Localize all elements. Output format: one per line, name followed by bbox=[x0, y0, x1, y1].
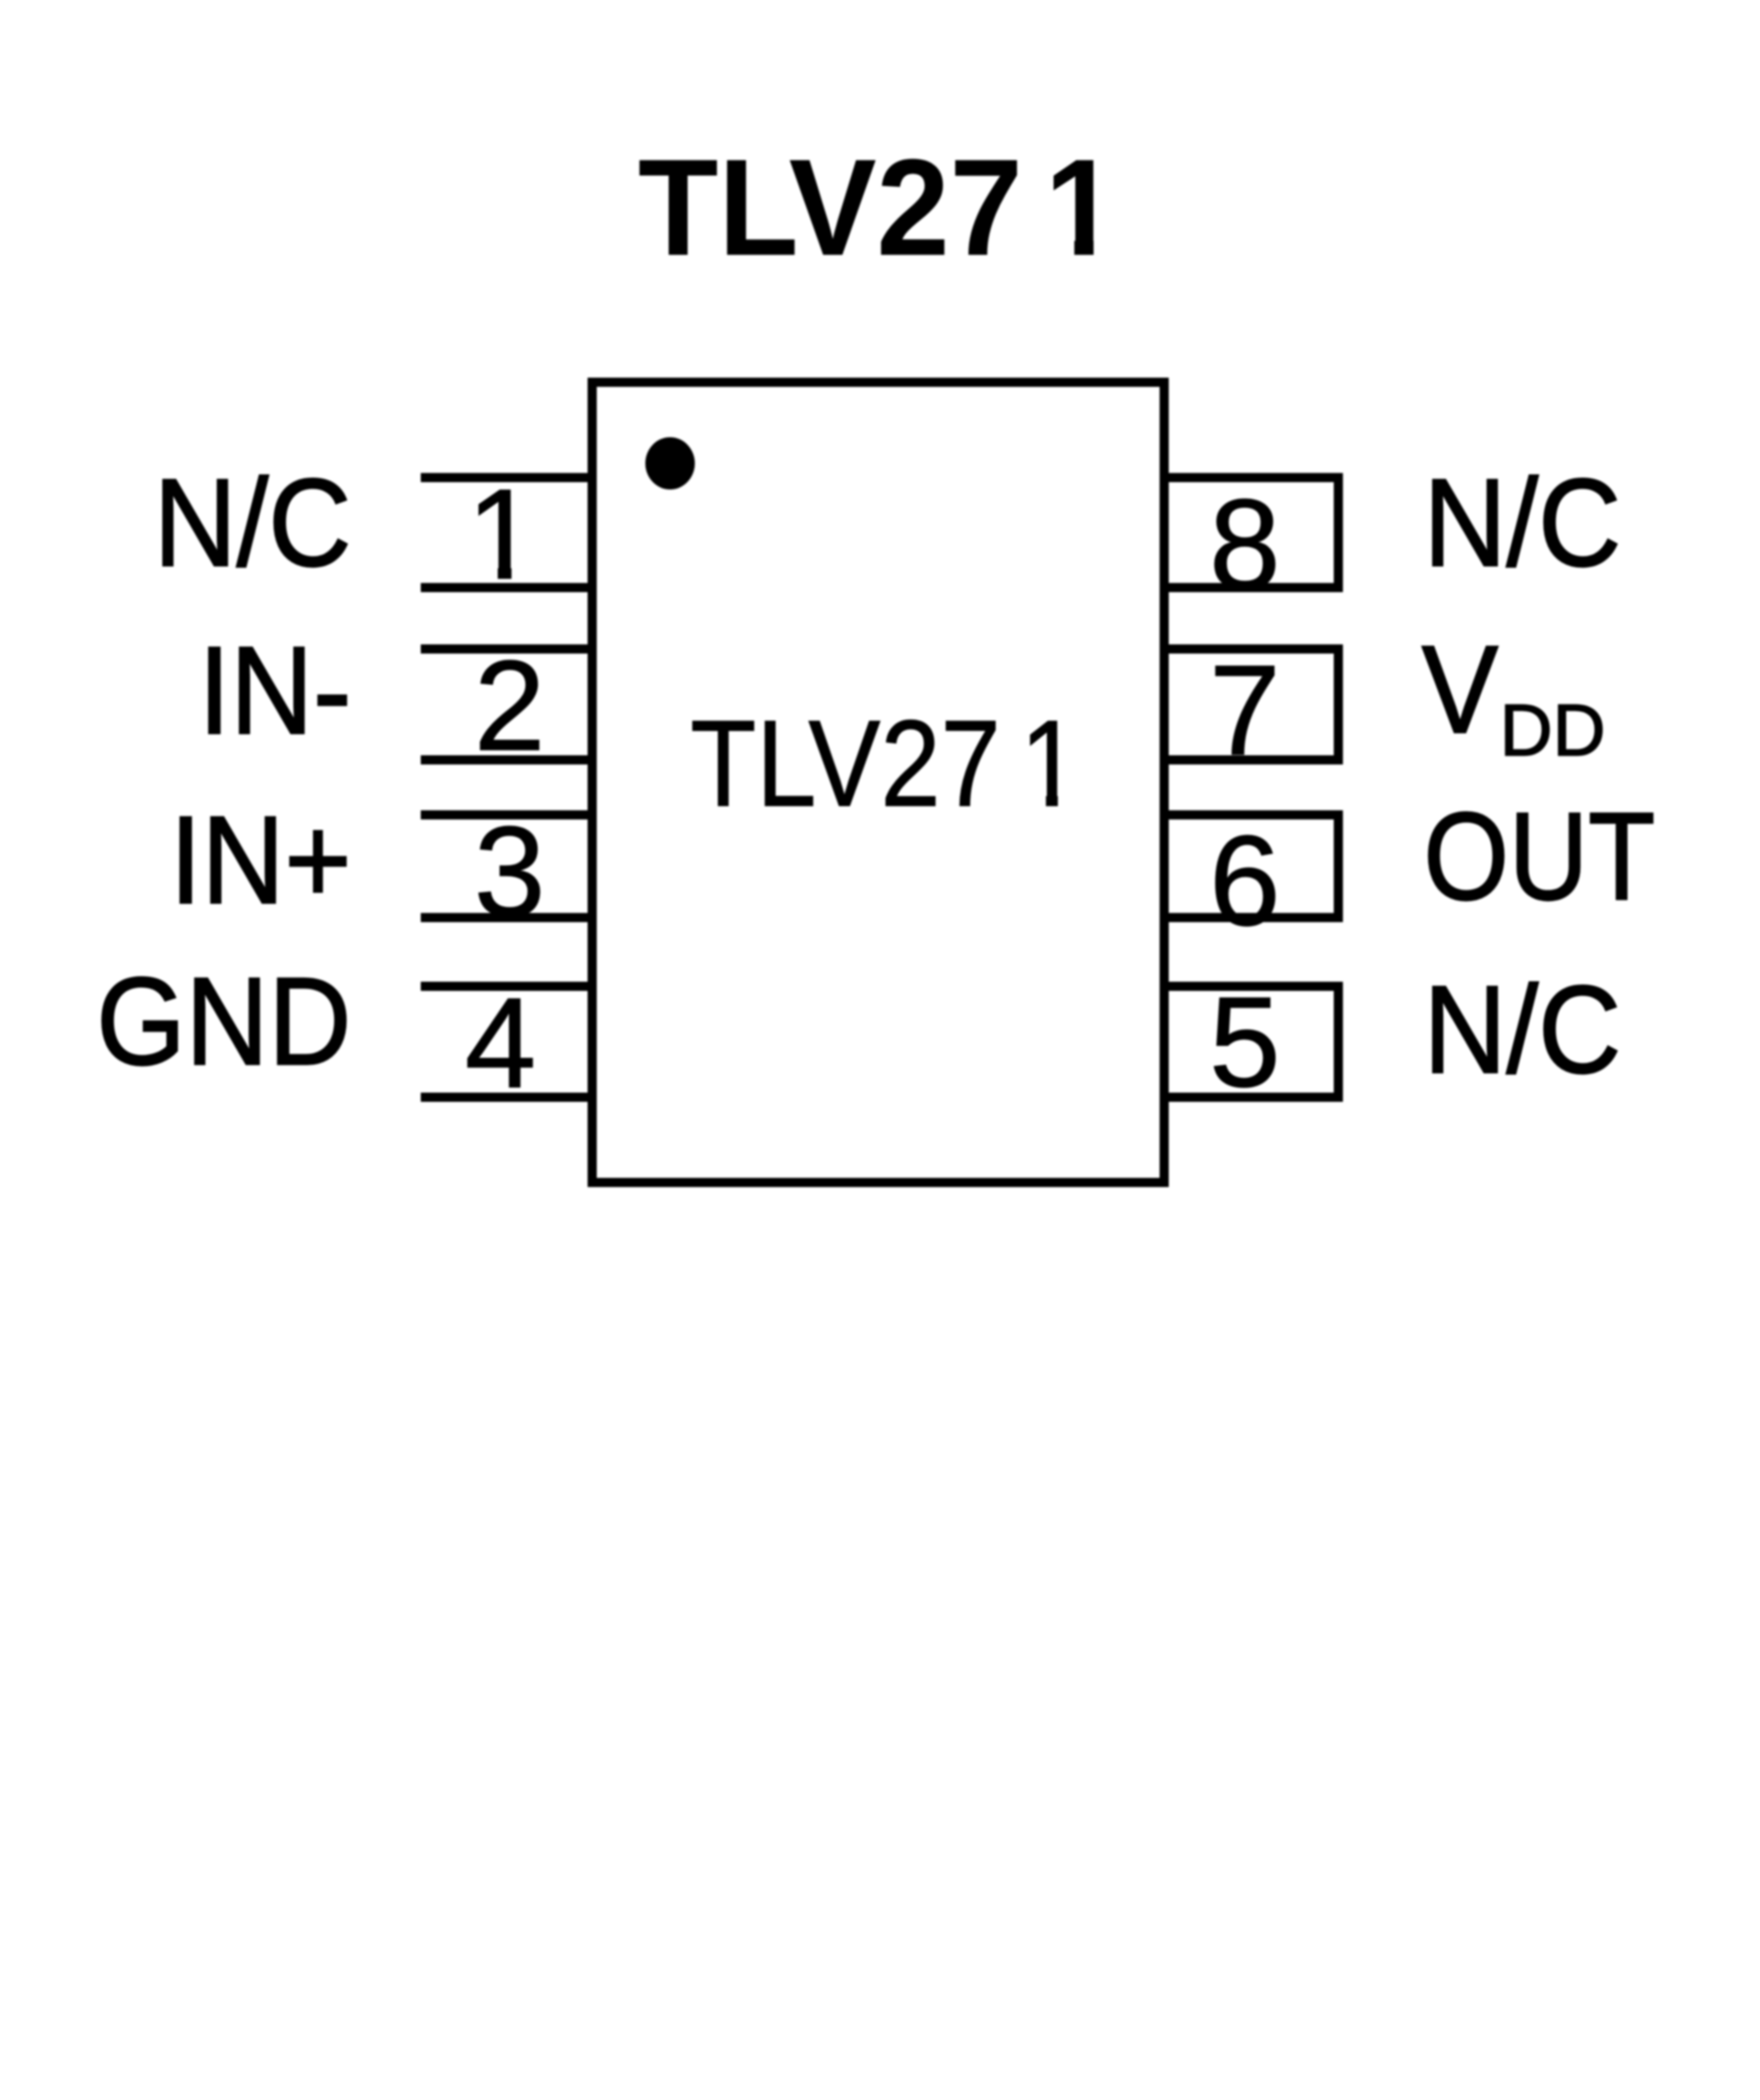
title TLV271 bbox=[638, 138, 1095, 276]
pin 2 lead bbox=[421, 644, 597, 764]
pin 8 name N/C bbox=[1424, 460, 1621, 585]
pin-1 indicator dot bbox=[645, 437, 695, 489]
pin 5 name N/C bbox=[1424, 967, 1621, 1092]
pin 1 number bbox=[411, 470, 594, 599]
pin 1 name N/C bbox=[154, 460, 351, 585]
pin 4 name GND bbox=[96, 959, 351, 1083]
pin 1 lead bbox=[421, 473, 597, 592]
pin 3 number bbox=[418, 808, 601, 936]
pin 5 lead bbox=[1160, 982, 1343, 1102]
pin 5 number bbox=[1153, 978, 1336, 1106]
pin 8 lead bbox=[1160, 473, 1343, 592]
pin 7 number bbox=[1153, 646, 1336, 775]
op-amp U1 package body bbox=[588, 378, 1169, 1187]
pin 2 number bbox=[418, 642, 601, 770]
pin 3 lead bbox=[421, 810, 597, 922]
pin 6 number bbox=[1153, 817, 1336, 945]
pin 7 lead bbox=[1160, 644, 1343, 764]
pin 4 lead bbox=[421, 982, 597, 1102]
pin 6 lead bbox=[1160, 810, 1343, 922]
pin 7 name VDD bbox=[1422, 627, 1498, 752]
pin 8 number bbox=[1153, 480, 1336, 609]
pin 2 name IN- bbox=[198, 628, 351, 753]
pin 6 name OUT bbox=[1424, 794, 1655, 918]
pin 3 name IN+ bbox=[170, 797, 351, 922]
pin 4 number bbox=[409, 979, 592, 1107]
part label TLV271 bbox=[690, 703, 1061, 826]
